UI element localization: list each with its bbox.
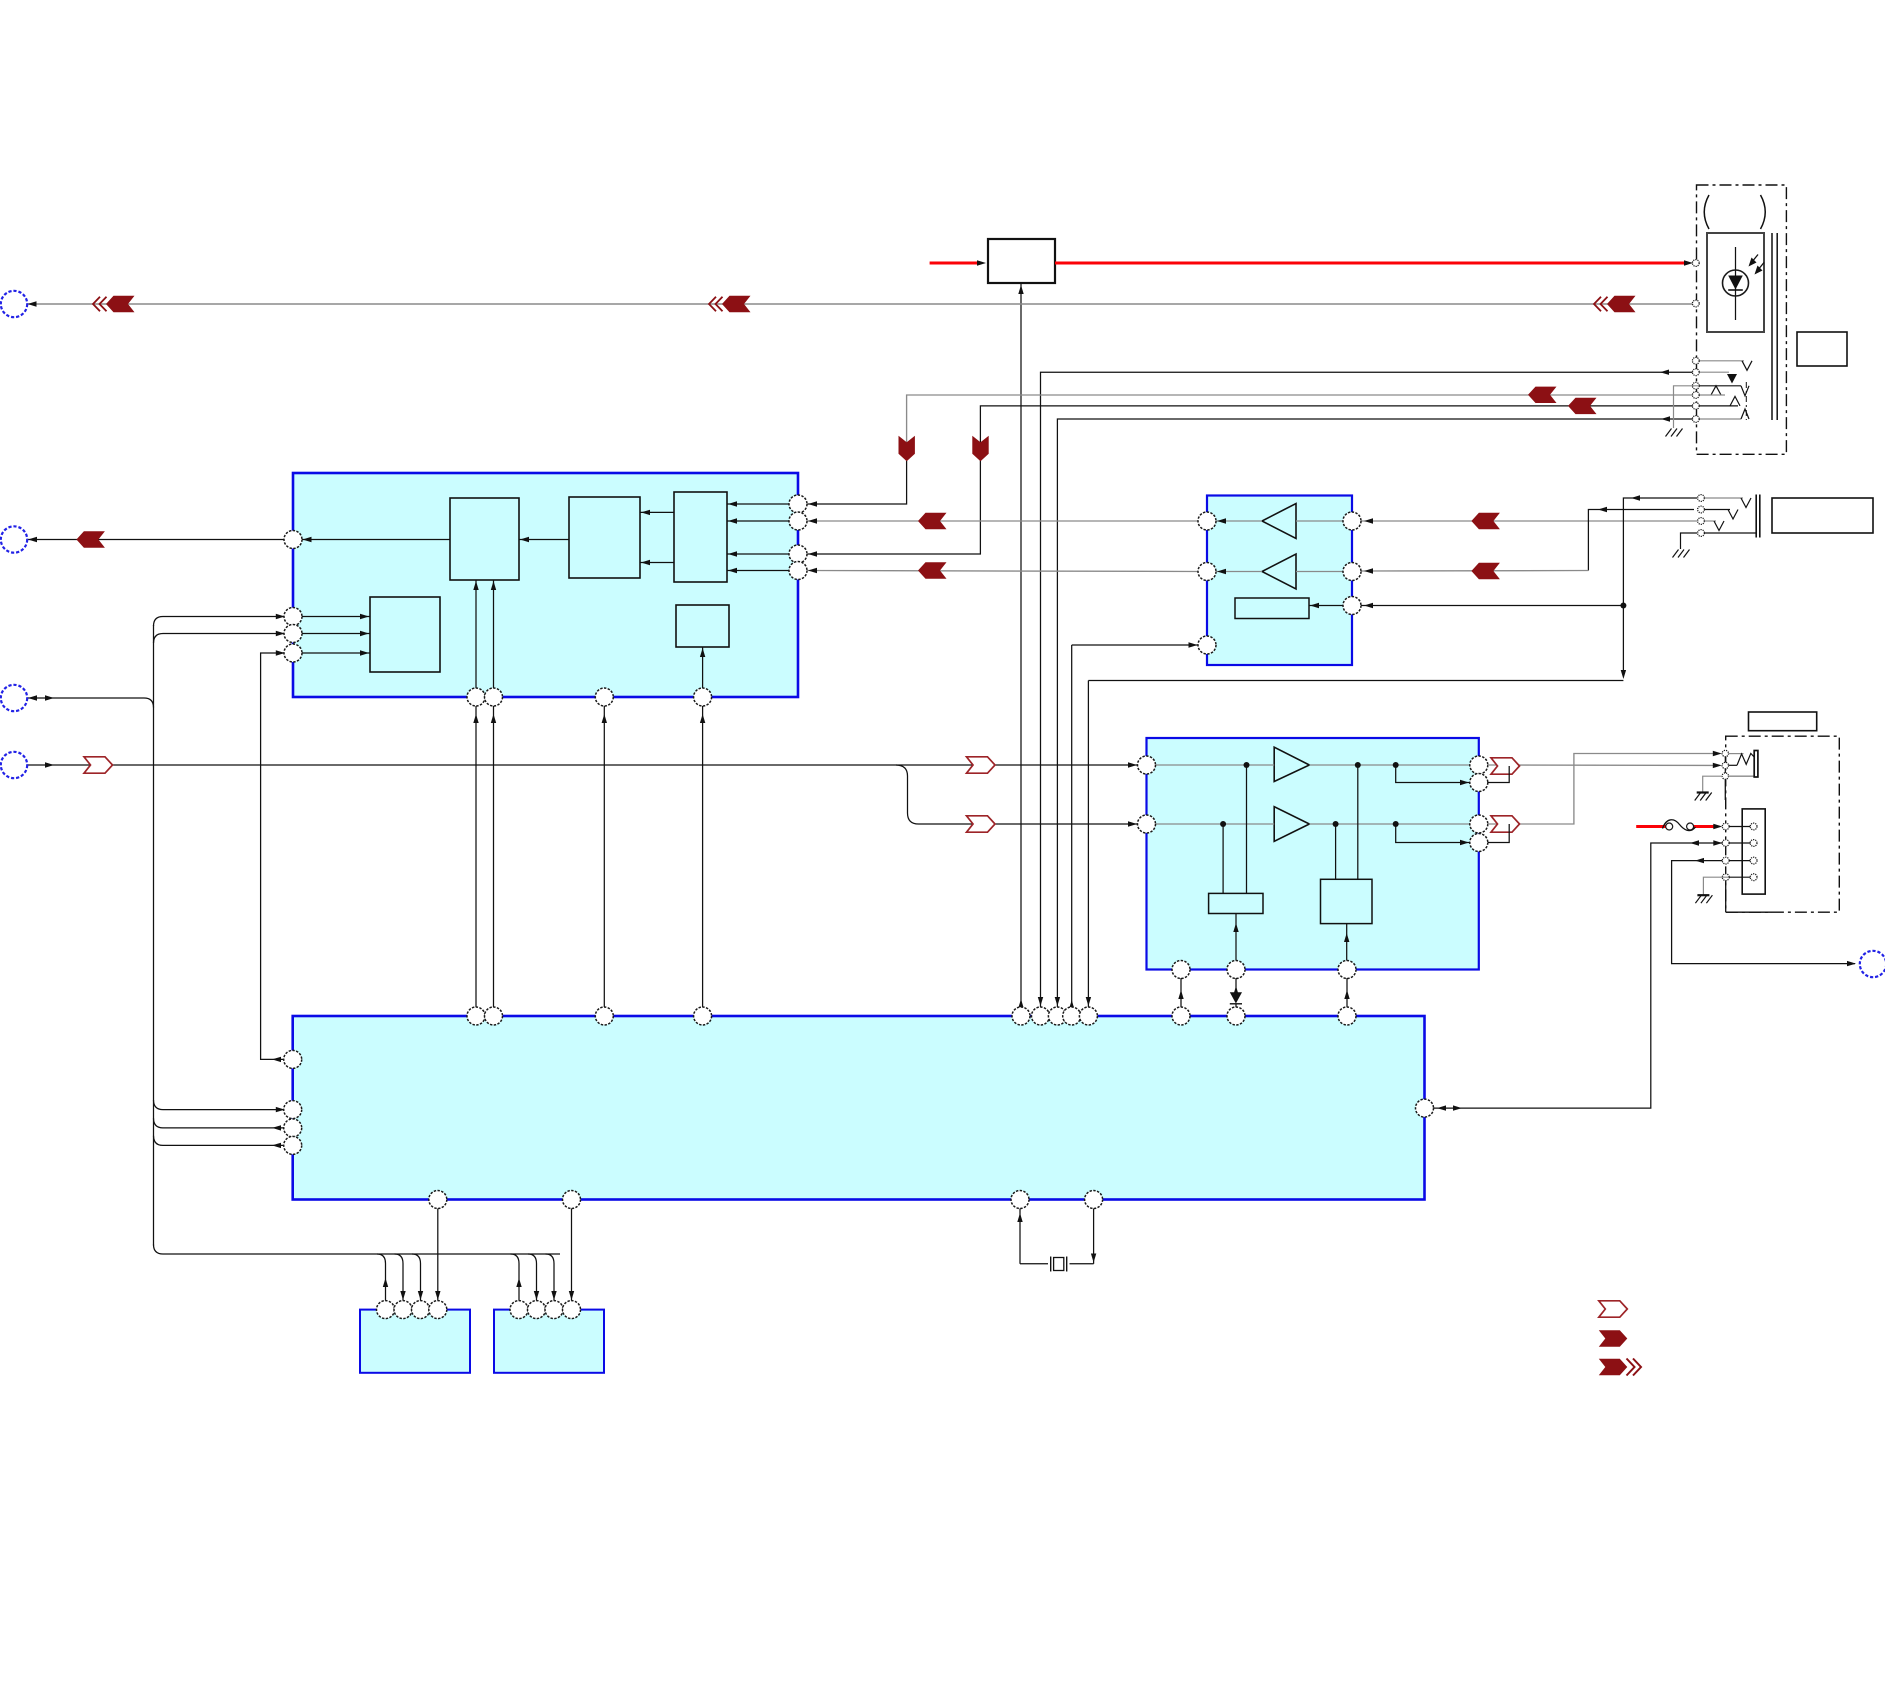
amp triangle R — [1274, 807, 1309, 842]
wire pin8 to IC4 — [1057, 419, 1692, 1008]
jack line-in contact 2 — [1704, 509, 1730, 511]
box E PLL inside IC1 — [676, 605, 729, 647]
ground jack board — [1697, 894, 1709, 896]
pin IC4 bottom x2 — [1085, 1191, 1103, 1209]
wire line-in L to IC2 — [1361, 520, 1698, 522]
wire bias1 bottom — [1235, 914, 1237, 962]
wire crystal left — [1019, 1208, 1021, 1264]
photodiode D1 triangle — [1728, 276, 1743, 290]
wire branch X1 p1 — [377, 1254, 386, 1301]
pin IC4 top c — [595, 1007, 613, 1025]
photodiode D1 vertical lead — [1735, 247, 1737, 320]
jack1 contact stub pin3 — [1699, 360, 1744, 362]
pin IC4 top g — [1048, 1007, 1066, 1025]
wire power pin3 to DC out — [1672, 861, 1855, 964]
pin IC1 R4 — [789, 562, 807, 580]
jack board pin 4 — [1722, 874, 1729, 881]
pin sub board 8 — [1692, 416, 1699, 423]
wire IC4 to IC1 data 4 — [702, 706, 704, 1008]
pin IC2 in R — [1343, 563, 1361, 581]
legend solid arrow with chevrons — [1599, 1359, 1628, 1375]
wire IC3 b3 to IC4 — [1346, 978, 1348, 1008]
junction L c — [1393, 762, 1399, 768]
wire phones pin3 to ground — [1703, 776, 1723, 792]
wire pin7 to IC1 pin R3 — [808, 406, 1693, 554]
pin IC3 in L — [1138, 756, 1156, 774]
arrow on line R — [918, 562, 947, 578]
pin X2 1 — [510, 1301, 528, 1319]
pin IC3 out 2 — [1470, 774, 1488, 792]
label box jack board — [1749, 712, 1817, 731]
wire branch X1 p3 — [412, 1254, 421, 1301]
box bias 1 inside IC3 — [1209, 893, 1263, 913]
pin IC1 B1 — [467, 688, 485, 706]
pin IC4 top a — [467, 1007, 485, 1025]
jack1 contact stub pin8 — [1699, 418, 1741, 420]
connector CN1 pin 3 — [1750, 857, 1757, 864]
pin IC4 top b — [485, 1007, 503, 1025]
wire CN1 link 4 — [1729, 876, 1750, 878]
wire IC4 to IC1 data 1 — [475, 706, 477, 1008]
connector CN1 body — [1742, 809, 1765, 894]
wire bias1 input 1 — [1246, 765, 1248, 893]
box C ADC inside IC1 — [674, 492, 727, 582]
jack1 contact stub pin7 — [1699, 405, 1738, 407]
junction R c — [1393, 821, 1399, 827]
jack phones pin 2 — [1722, 762, 1728, 768]
pin IC4 bottom 2 — [563, 1191, 581, 1209]
arrow remote line middle — [709, 297, 716, 312]
wire branch X2 p1 — [511, 1254, 520, 1301]
jack1 contact stub pin5 — [1699, 385, 1741, 387]
pin IC1 R1 — [789, 495, 807, 513]
wire IC2 enable vertical — [1071, 645, 1073, 1008]
arrow down on RF wire — [899, 436, 915, 462]
photodiode D1 cathode bar — [1728, 289, 1743, 291]
cyan block X1 display — [360, 1310, 470, 1373]
jack line-in contact 1 — [1704, 497, 1743, 499]
jack phones sleeve contact — [1729, 775, 1755, 777]
pin IC2 enable — [1198, 636, 1216, 654]
wire jack pin4 to ground — [1681, 533, 1698, 549]
wire line-in terminal to IC3 L — [27, 764, 1139, 766]
box right of sensor — [1797, 332, 1847, 366]
pin IC2 mute — [1343, 597, 1361, 615]
pin IC2 out L — [1198, 512, 1216, 530]
junction L a — [1244, 762, 1250, 768]
wire pin6 to IC1 RF (gray) — [907, 395, 1693, 461]
dash-dot enclosure remote sensor — [1697, 185, 1787, 454]
wire IC3 line L — [1155, 764, 1274, 766]
jack phones spring contact — [1729, 764, 1738, 766]
pin IC4 top k — [1227, 1007, 1245, 1025]
pin IC2 out R — [1198, 563, 1216, 581]
wire IC1 bottom pin B2 up to box A — [493, 580, 495, 689]
pin X2 4 — [563, 1301, 581, 1319]
jack phones tip contact — [1729, 753, 1744, 755]
wire IC1 pin L3 to box D — [302, 652, 371, 654]
wire jack pin1 to mute net — [1623, 498, 1697, 674]
connector CN1 pin 4 — [1750, 874, 1757, 881]
pin IC4 top d — [694, 1007, 712, 1025]
fuse F1 — [1666, 823, 1673, 830]
wire box C to box B upper — [640, 511, 674, 513]
jack line-in contact 4 — [1704, 532, 1756, 534]
wire mute net riser to IC4 — [1087, 681, 1089, 1008]
wire bus branch to terminal T3 — [27, 698, 154, 708]
wire branch X2 p2 — [528, 1254, 537, 1301]
pin IC1 B2 — [485, 688, 503, 706]
wire bus down to key bus — [154, 1245, 561, 1255]
wire bias1 input 2 — [1222, 824, 1224, 893]
wire IC1 pin R1 to box C — [727, 503, 790, 505]
terminal T1 remote — [1, 291, 27, 317]
sensor window bar — [1771, 233, 1773, 420]
pin sub board 5 — [1692, 382, 1699, 389]
open arrow line R — [967, 816, 996, 832]
wire IC1 pin R2 to box C — [727, 520, 790, 522]
jack line-in sleeve bars — [1755, 495, 1757, 538]
jack board pin 3 — [1722, 857, 1729, 864]
box right of line-in jack — [1772, 498, 1873, 533]
wire bus branch to IC4 pin c — [154, 1136, 285, 1146]
wire IC3 b2 diode upper — [1235, 978, 1237, 992]
pin IC1 B3 — [595, 688, 613, 706]
pin IC1 out — [284, 531, 302, 549]
wire branch X2 p3 — [546, 1254, 555, 1301]
wire out3 to phones ring — [1488, 754, 1716, 825]
pin IC1 R3 — [789, 545, 807, 563]
connector CN1 pin 1 — [1750, 823, 1757, 830]
open arrow phones R — [1491, 816, 1520, 832]
jack1 contact stub pin6 — [1699, 394, 1725, 396]
pin IC4 top l — [1338, 1007, 1356, 1025]
wire IC1 pin R4 to box C — [727, 570, 790, 572]
photodiode D1 circle — [1723, 270, 1749, 296]
terminal T4 line in — [1, 752, 27, 778]
wire pin4 to IC4 (key scan) — [1041, 372, 1693, 1007]
open arrow line near terminal — [84, 757, 113, 773]
junction out1 — [1506, 763, 1512, 769]
amp triangle L — [1274, 747, 1309, 781]
jack1 contact stub pin4 — [1699, 371, 1729, 373]
pin IC1 B4 — [694, 688, 712, 706]
box REG regulator — [988, 239, 1055, 283]
arrow on T2 wire — [76, 531, 105, 547]
jack line-in pin 1 — [1698, 495, 1705, 502]
junction mute net — [1620, 603, 1626, 609]
jack line-in pin 4 — [1698, 530, 1705, 537]
pin IC1 R2 — [789, 512, 807, 530]
wire pin4 to ground — [1703, 877, 1729, 895]
wire IC2 out R to IC1 (gray) — [808, 571, 1199, 572]
wire box C to box B lower — [640, 562, 674, 564]
box B DSP inside IC1 — [569, 497, 640, 578]
pin IC1 L3 — [284, 644, 302, 662]
terminal T3 control — [1, 685, 27, 711]
legend open arrow — [1599, 1301, 1628, 1317]
connector CN1 pin 2 — [1750, 840, 1757, 847]
pin sub board 6 — [1692, 392, 1699, 399]
jack board pin 2 — [1722, 840, 1729, 847]
pin X2 3 — [545, 1301, 563, 1319]
arrow big on pin7 wire — [1568, 398, 1597, 414]
wire branch to IC3 R — [896, 765, 1138, 824]
box mute inside IC2 — [1235, 598, 1309, 619]
pin IC4 left 3 — [284, 1119, 302, 1137]
wire IC2 line1 inside — [1296, 520, 1344, 522]
wire box A to left output circle — [302, 539, 450, 541]
box A decoder inside IC1 — [450, 498, 519, 580]
pin IC2 in L — [1343, 512, 1361, 530]
wire crystal right — [1093, 1208, 1095, 1264]
arrow down on pin7 wire — [972, 436, 988, 462]
arrow on line-in R — [1471, 563, 1500, 579]
pin IC4 top j — [1172, 1007, 1190, 1025]
junction L b — [1355, 762, 1361, 768]
wire out1 to phones tip — [1488, 764, 1716, 766]
pin IC3 out 4 — [1470, 834, 1488, 852]
wire IC4 to IC1 data 3 — [603, 706, 605, 1008]
jack line-in pin 3 — [1698, 518, 1705, 525]
cyan block IC4 system control micro — [293, 1016, 1425, 1200]
legend solid arrow — [1599, 1330, 1628, 1346]
wire IC2 enable input — [1072, 644, 1199, 646]
pin X1 3 — [412, 1301, 430, 1319]
pin IC4 left 1 — [284, 1050, 302, 1068]
lens arc left — [1704, 195, 1709, 229]
arrow big on pin6 wire — [1528, 387, 1557, 403]
pin IC4 left 4 — [284, 1136, 302, 1154]
photodiode light arrow 1 — [1752, 255, 1759, 263]
pin IC4 top h — [1063, 1007, 1081, 1025]
cyan block IC2 buffer amp — [1207, 496, 1352, 666]
box D servo inside IC1 — [370, 597, 440, 672]
pin X1 4 — [429, 1301, 447, 1319]
jack phones sleeve bar — [1754, 751, 1758, 778]
wire mute line from junction — [1361, 605, 1624, 607]
pin remote sensor out — [1692, 300, 1699, 307]
lens arc right — [1761, 195, 1766, 229]
open arrow phones L — [1491, 758, 1520, 774]
pin IC4 top f — [1032, 1007, 1050, 1025]
pin IC4 right — [1416, 1099, 1434, 1117]
wire jack board ground trace — [1725, 881, 1727, 913]
jack phones pin 1 — [1722, 750, 1728, 756]
pin X1 1 — [377, 1301, 395, 1319]
jack board pin 1 — [1722, 823, 1729, 830]
ground sub board — [1666, 429, 1672, 437]
photodiode light arrow 2 — [1758, 263, 1765, 271]
cyan block IC1 servo/RF amp — [293, 473, 798, 697]
wire IC3 b1 to IC4 — [1180, 978, 1182, 1008]
wire IC2 line2 inside — [1296, 571, 1344, 573]
wire IC4 to X2 p4 — [571, 1208, 573, 1301]
pin IC4 top i — [1079, 1007, 1097, 1025]
cyan block X2 key board — [494, 1310, 604, 1373]
wire box B to box A — [519, 539, 569, 541]
pin IC3 in R — [1138, 815, 1156, 833]
pin IC3 bottom 2 — [1227, 961, 1245, 979]
ground line-in jack — [1673, 550, 1679, 558]
red power wire — [1636, 825, 1666, 828]
wire IC2 out L to IC1 (gray) — [808, 520, 1199, 522]
wire IC2 mute input — [1309, 605, 1344, 607]
wire CN1 link 1 — [1729, 826, 1750, 828]
buffer amp A1 triangle — [1262, 504, 1296, 539]
wire branch X1 p2 — [395, 1254, 404, 1301]
wire IC1 bottom pin B1 up to box A — [475, 580, 477, 689]
wire IC1 out to terminal T2 — [27, 539, 285, 541]
terminal T5 DC — [1860, 951, 1885, 977]
pin IC4 top e — [1012, 1007, 1030, 1025]
wire IC4 ctrl out to IC1 (via left riser) — [261, 653, 285, 1059]
wire bus branch to IC1 L2 — [154, 634, 285, 644]
pin IC4 bottom 1 — [429, 1191, 447, 1209]
wire IC4 to X1 p4 — [437, 1208, 439, 1301]
wire mute net horizontal — [1088, 680, 1623, 682]
ground phones jack — [1697, 791, 1709, 793]
wire out4 up to out3 — [1488, 824, 1509, 843]
pin sub board 7 — [1692, 403, 1699, 410]
pin sub board 3 — [1692, 357, 1699, 364]
wire IC1 bottom pin B4 up to box E — [702, 647, 704, 689]
wire bias2 input 1 — [1357, 765, 1359, 879]
arrow remote line right — [1594, 297, 1601, 312]
red supply wire to remote sensor — [1055, 262, 1688, 265]
wire out2 up to out1 — [1487, 766, 1509, 783]
crystal X101 — [1050, 1257, 1052, 1272]
wire IC1 pin R3 to box C — [727, 553, 790, 555]
open arrow line L — [967, 757, 996, 773]
junction R b — [1333, 821, 1339, 827]
pin IC1 L1 — [284, 608, 302, 626]
pin remote sensor Vcc — [1692, 260, 1699, 267]
terminal T2 audio out — [1, 526, 27, 552]
jack line-in pin 2 — [1698, 506, 1705, 513]
jack phones link pins — [1724, 757, 1726, 763]
pin X2 2 — [528, 1301, 546, 1319]
junction R a — [1220, 821, 1226, 827]
wire left bus riser — [153, 625, 155, 1246]
pin IC3 bottom 1 — [1172, 961, 1190, 979]
pin IC3 out 1 — [1470, 756, 1488, 774]
jack phones pin 3 — [1722, 773, 1728, 779]
wire branch to out pin 2 — [1396, 765, 1471, 783]
pin IC4 left 2 — [284, 1101, 302, 1119]
wire bus branch to IC4 pin a — [154, 1100, 285, 1110]
pin IC3 bottom 3 — [1338, 961, 1356, 979]
wire branch to out pin 4 — [1396, 824, 1471, 843]
pin IC3 out 3 — [1470, 815, 1488, 833]
wire REG down to IC4 — [1020, 283, 1022, 1008]
wire power pin2 to IC4 — [1433, 843, 1722, 1108]
wire IC1 pin L2 to box D — [302, 633, 371, 635]
wire CN1 link 2 — [1729, 842, 1750, 844]
pin IC4 bottom x1 — [1011, 1191, 1029, 1209]
buffer amp A2 triangle — [1262, 554, 1296, 589]
diode D2 — [1230, 992, 1242, 1003]
arrow on line L — [918, 513, 947, 529]
junction out3 — [1506, 821, 1512, 827]
cyan block IC3 headphone amp — [1147, 738, 1479, 970]
arrow on line-in L — [1471, 513, 1500, 529]
dash-dot enclosure jack board — [1726, 736, 1840, 912]
box bias 2 inside IC3 — [1321, 879, 1373, 923]
wire IC3 line R — [1155, 823, 1274, 825]
wire pin6 lower part to IC1 pin R1 — [808, 461, 907, 504]
wire bias2 input 2 — [1335, 824, 1337, 879]
wire bias2 bottom — [1346, 924, 1348, 961]
pin X1 2 — [394, 1301, 412, 1319]
wire line-in R to IC2 — [1588, 510, 1694, 571]
wire IC4 to IC1 data 2 — [493, 706, 495, 1008]
wire IC3 b2 diode lower — [1235, 1004, 1237, 1008]
wire pin5 to ground — [1674, 386, 1700, 428]
wire bus branch to IC4 pin b — [154, 1118, 285, 1128]
jack1 inner dash line — [1745, 382, 1747, 420]
pin IC1 L2 — [284, 625, 302, 643]
wire CN1 link 3 — [1729, 860, 1750, 862]
wire IC1 pin L1 to box D — [302, 616, 371, 618]
wire remote signal line — [27, 303, 1693, 305]
arrow remote line left — [93, 297, 100, 312]
red supply wire left stub — [930, 262, 981, 265]
wire bus branch to IC1 L1 — [154, 617, 285, 627]
photo detector box — [1707, 233, 1764, 332]
pin sub board 4 — [1692, 369, 1699, 376]
jack line-in contact 3 — [1704, 520, 1716, 522]
